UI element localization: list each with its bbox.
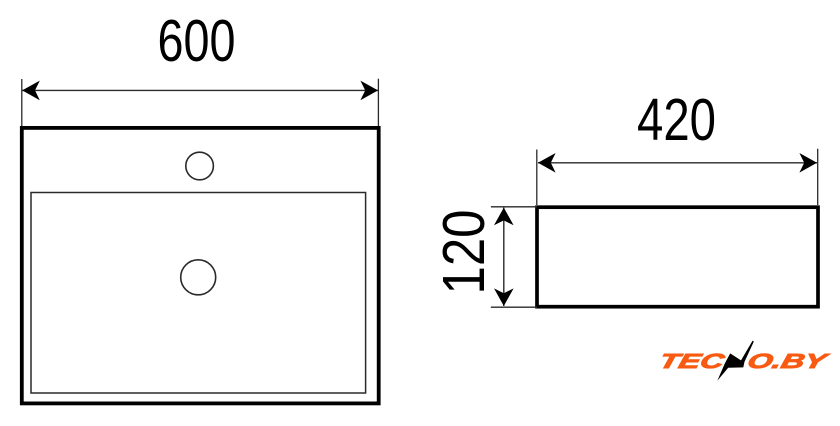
dimension line 420 [538,162,817,164]
svg-text:TEC: TEC [657,350,728,373]
extension tick top (120 dim) [491,206,537,208]
dimension line 120 (vertical) [503,208,505,306]
extension line left (420 dim) [536,150,538,206]
arrowhead left (600 dim) [22,81,40,101]
arrowhead down (120 dim) [494,288,514,306]
extension tick bottom (120 dim) [491,306,537,308]
svg-text:600: 600 [158,8,236,74]
extension line right (600 dim) [377,79,379,126]
logo lightning bolt N [717,341,754,381]
cabinet body (side view) [537,207,818,307]
arrowhead right (600 dim) [360,81,378,101]
arrowhead left (420 dim) [538,153,556,173]
extension line right (420 dim) [817,149,819,205]
svg-text:120: 120 [431,210,497,295]
basin inner bowl (top view) [31,193,366,394]
arrowhead up (120 dim) [494,208,514,226]
dimension line 600 [22,89,378,91]
arrowhead right (420 dim) [799,153,817,173]
drain hole [181,260,216,295]
svg-text:O.BY: O.BY [745,350,832,373]
basin outer rim (top view) [22,128,379,404]
faucet hole [186,152,214,180]
svg-text:420: 420 [637,87,716,153]
extension line left (600 dim) [21,79,23,126]
